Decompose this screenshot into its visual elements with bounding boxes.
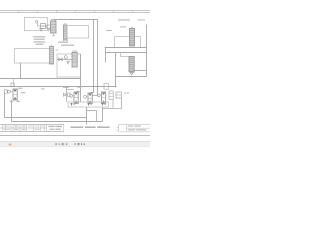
group box G6 central unit — [57, 54, 81, 77]
gauge PI2 in G6 — [64, 56, 67, 59]
label text top right B — [138, 19, 146, 20]
station C mid element — [109, 91, 113, 100]
station B gauge — [84, 95, 87, 98]
top border ruler line 2 — [0, 12, 150, 14]
title block top line left — [0, 124, 64, 126]
M1 tip — [131, 26, 133, 28]
background sheet — [0, 0, 150, 150]
muffler M2 hatched canister — [129, 57, 134, 72]
heater column H1 — [50, 47, 54, 65]
F2 drain stub — [53, 33, 55, 36]
filter F3 canister in G6 — [72, 53, 77, 68]
title block top line right — [119, 124, 151, 126]
toolbar icon cluster 1 — [55, 143, 67, 145]
station A aux block — [68, 93, 70, 96]
long return wire 1 — [5, 117, 87, 119]
node junction right assembly — [105, 47, 107, 49]
exhaust arrow 3 — [101, 103, 103, 106]
label text under F2 — [58, 42, 68, 43]
box G5 partial frame — [121, 53, 130, 57]
wire right drop left — [105, 48, 107, 63]
station C lower wire — [103, 108, 122, 110]
dryer column D1 — [64, 25, 68, 40]
exhaust arrow ticks — [73, 103, 106, 106]
group box G2 middle-left — [15, 49, 53, 64]
wire manifold drop C — [102, 107, 104, 122]
bottom toolbar strip — [0, 142, 150, 147]
wire manifold drop A — [86, 107, 88, 125]
right edge wire — [146, 25, 148, 77]
valve body V1 in G1 — [41, 24, 46, 29]
wire inside G6 — [57, 59, 72, 61]
wire left station drop 1 — [4, 93, 6, 117]
F2 inner lines — [51, 24, 56, 30]
ruler zone ticks — [19, 11, 133, 13]
node junction on bus right — [115, 86, 117, 88]
long drop wire 1 — [93, 20, 95, 93]
station C bus valve — [104, 83, 108, 89]
elbow to station A cylinder — [77, 91, 81, 93]
exhaust arrow 1 — [70, 103, 72, 106]
mid-span small label — [41, 88, 45, 89]
title block bottom line left — [0, 131, 64, 133]
drawing title text — [71, 127, 110, 128]
label speck right of H1 — [56, 49, 59, 50]
top border ruler line 1 — [0, 10, 150, 12]
wire right mid horizontal — [106, 52, 147, 54]
long return wire 2 — [12, 121, 103, 123]
filter regulator F2 canister — [51, 21, 57, 33]
title block right text row1 — [128, 126, 141, 127]
wire jog horizontal — [87, 110, 97, 112]
pilot wire vertical in G1 — [37, 23, 39, 27]
title block bottom line right — [119, 131, 151, 133]
wire left station drop 2 — [11, 100, 13, 122]
F2 pilot attachment — [47, 25, 51, 28]
station C gauge — [98, 94, 101, 97]
F2 drain tick — [52, 35, 55, 37]
title block mid line left — [0, 127, 47, 129]
toolbar orange icon — [9, 144, 12, 146]
junction nodes on bus — [93, 86, 95, 88]
label text under G1 — [33, 36, 45, 37]
station A cylinder — [74, 92, 78, 104]
title block cell text row 1 — [4, 125, 44, 128]
F3 cap — [73, 51, 76, 53]
title block dividers — [3, 125, 127, 132]
drain valve triangle in G1 — [40, 29, 43, 32]
station C right drop — [121, 98, 123, 109]
toolbar icon cluster 2 — [75, 143, 85, 145]
left station label 2 — [21, 92, 25, 93]
sheet bottom border — [0, 135, 150, 137]
station C right block — [116, 92, 122, 98]
station C cylinder — [102, 92, 106, 104]
left station cylinder — [13, 89, 17, 100]
exhaust tees — [10, 100, 20, 102]
drain triangle in G6 — [67, 61, 70, 64]
valve V2 bowtie in G6 — [59, 58, 63, 61]
H1 hatch — [50, 48, 53, 63]
station B cylinder — [88, 93, 92, 104]
elbow to station B cylinder — [90, 92, 93, 94]
wire M2 to right edge — [134, 70, 146, 72]
M1 hatch — [130, 30, 134, 44]
station A label — [63, 87, 69, 88]
F2 cap — [51, 19, 56, 21]
funnel under M2 — [130, 72, 133, 74]
station C label — [124, 92, 126, 93]
title block 2-line name cell — [48, 126, 62, 130]
group box G1 air service unit — [25, 18, 48, 31]
D1 hatch rungs — [64, 27, 67, 38]
manifold box — [68, 102, 109, 107]
long drop wire 2 — [97, 20, 99, 96]
V1 inner line — [41, 25, 45, 27]
label text above M1 — [120, 26, 126, 27]
connector left — [13, 79, 15, 87]
F3 inner lines — [72, 56, 77, 62]
accumulator box G4 — [115, 37, 141, 48]
title block right text row2 — [128, 129, 146, 130]
left station gauge — [8, 90, 11, 93]
H1 cap tick — [51, 44, 53, 46]
station C mid drop — [112, 100, 114, 109]
D1 cap tick — [64, 23, 66, 25]
receiver box G3 — [67, 26, 89, 39]
title block cell text row 2 — [4, 128, 40, 131]
wire inside G1 — [38, 25, 48, 27]
main supply wire — [54, 19, 98, 21]
D1 feet ticks — [63, 40, 65, 41]
station B label — [77, 87, 81, 88]
title block mid line right — [127, 127, 151, 129]
main bus wire — [0, 86, 116, 88]
station A left rail — [66, 87, 68, 103]
left station label 1 — [18, 88, 23, 89]
muffler M1 hatched canister — [130, 29, 135, 47]
wire drop x115.5 — [115, 53, 117, 77]
elbow 2 to station B — [92, 95, 97, 97]
wire right assembly lower bus — [106, 47, 147, 49]
wire jog vertical — [96, 111, 98, 122]
station A gauge — [70, 94, 73, 97]
node drop to bus — [115, 77, 117, 87]
left station pilot block — [4, 90, 7, 93]
gauge PI1 in G1 — [36, 21, 38, 23]
station A check valve — [63, 93, 66, 96]
long return wire upper — [0, 78, 81, 80]
station A top link — [67, 89, 75, 91]
exhaust arrow 2 — [87, 103, 89, 106]
F2 pilot drain triangle — [48, 28, 50, 31]
M2 hatch — [129, 58, 134, 70]
left station bus valve — [11, 83, 14, 87]
wire bottom horizontal right — [116, 76, 147, 78]
label text right assembly — [106, 30, 111, 31]
wire from G2 down — [20, 63, 22, 79]
label text top right A — [118, 19, 130, 20]
feed wire to stations — [80, 54, 82, 102]
